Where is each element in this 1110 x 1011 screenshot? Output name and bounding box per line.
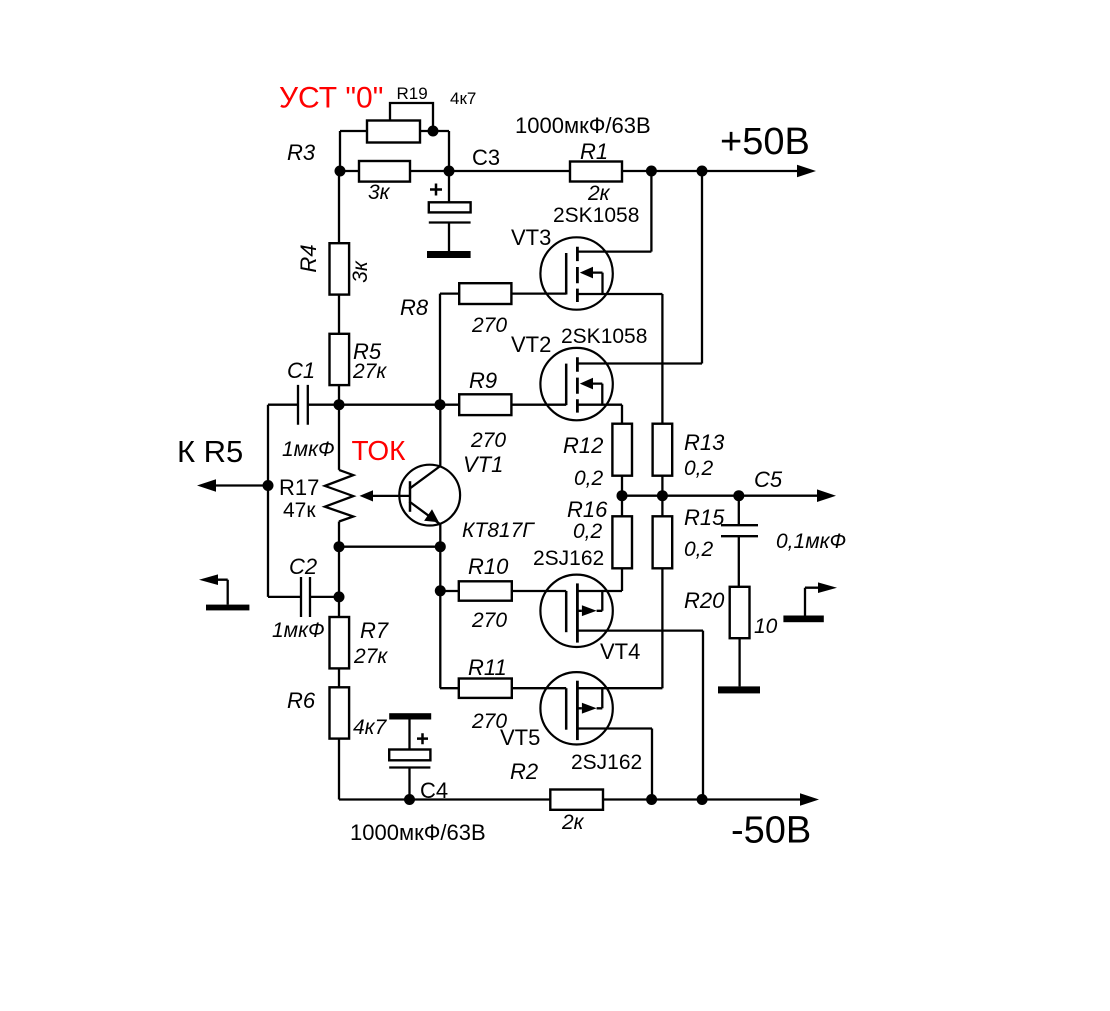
svg-text:R2: R2 [510, 759, 538, 784]
wire R6 to bottom rail [338, 739, 340, 800]
potentiometer R19 [367, 121, 420, 143]
wire R8 leads [440, 294, 566, 405]
node VT1 emitter [435, 541, 446, 552]
svg-text:C1: C1 [287, 358, 315, 383]
arrow -50V [800, 793, 819, 806]
node R17 bottom [334, 541, 345, 552]
transistor VT3 (2SK1058) [540, 237, 612, 309]
svg-text:VT5: VT5 [500, 725, 540, 750]
transistor VT1 (КТ817Г) [399, 465, 460, 526]
node C3 top [444, 166, 455, 177]
capacitor C4 plate [389, 750, 430, 761]
capacitor C2 [301, 577, 310, 617]
ground left [206, 605, 249, 611]
svg-text:УСТ "0": УСТ "0" [279, 82, 383, 115]
resistor R17 zigzag [325, 470, 353, 522]
arrow left ground [199, 574, 218, 585]
wire bottom rail -50V [339, 798, 803, 800]
node input [263, 480, 274, 491]
svg-text:-50В: -50В [731, 810, 811, 852]
transistor VT5 (2SJ162) [540, 672, 612, 744]
capacitor C3 plate [429, 202, 471, 212]
svg-text:27к: 27к [353, 645, 388, 668]
svg-text:1мкФ: 1мкФ [282, 438, 335, 461]
svg-text:R11: R11 [468, 655, 507, 680]
node dots [263, 126, 745, 806]
resistor R10 [459, 581, 512, 600]
svg-text:1мкФ: 1мкФ [272, 619, 325, 642]
arrow right ground [818, 582, 837, 593]
ground under R20 [718, 686, 760, 693]
svg-text:2SK1058: 2SK1058 [553, 204, 639, 227]
node VT2 drain rail [697, 166, 708, 177]
svg-text:2к: 2к [561, 811, 585, 834]
svg-text:R15: R15 [684, 505, 725, 530]
wire VT5 source to R15 [577, 568, 662, 688]
svg-text:R17: R17 [279, 475, 319, 500]
svg-text:VT2: VT2 [511, 332, 551, 357]
node C5 top [733, 490, 744, 501]
svg-text:R3: R3 [287, 140, 316, 165]
wire C3 branch [429, 171, 471, 252]
wire C2 node y=596.9 [268, 596, 339, 598]
wire C4 branch [389, 719, 430, 799]
wire right ground elbow [805, 588, 818, 616]
svg-text:10: 10 [754, 615, 778, 638]
node VT3 drain rail [646, 166, 657, 177]
plus sign C4 [417, 733, 428, 744]
resistor R12 [612, 424, 632, 476]
resistor R11 [459, 679, 512, 698]
wire R17/C2 to R7 [338, 547, 340, 617]
ground right [783, 616, 823, 623]
svg-text:C3: C3 [472, 145, 500, 170]
arrow output C5 [817, 489, 836, 502]
svg-text:R6: R6 [287, 688, 316, 713]
node VT4 drain rail [697, 794, 708, 805]
ground under C3 [427, 251, 471, 258]
svg-text:R10: R10 [468, 554, 509, 579]
node C1/R5 [334, 399, 345, 410]
svg-text:R8: R8 [400, 295, 429, 320]
svg-text:ТОК: ТОК [352, 435, 407, 466]
resistor R2 [550, 790, 603, 810]
wire R10 leads [440, 590, 566, 592]
svg-text:R19: R19 [397, 84, 428, 103]
svg-text:4к7: 4к7 [353, 716, 388, 739]
node C2/R7 [334, 591, 345, 602]
wiper arrow of R17 [360, 490, 374, 501]
svg-text:3к: 3к [368, 181, 391, 204]
wire VT1 emitter vertical [439, 524, 441, 688]
wire C1 node y=404.7 [268, 404, 459, 406]
resistor R15 [653, 516, 673, 568]
svg-text:VT4: VT4 [600, 639, 640, 664]
svg-text:3к: 3к [349, 260, 372, 283]
svg-text:C4: C4 [420, 778, 448, 803]
svg-text:+50В: +50В [720, 121, 810, 163]
svg-text:2SJ162: 2SJ162 [571, 751, 642, 774]
svg-text:4к7: 4к7 [450, 89, 476, 108]
wire R17 bottom [338, 522, 340, 547]
wire R12 R13 bottoms to output node [622, 476, 662, 517]
resistor R9 [459, 394, 511, 415]
wire +50V rail [340, 170, 801, 172]
wire R19 left vertical [340, 131, 367, 171]
node VT5 drain rail [646, 794, 657, 805]
resistor R4 [330, 243, 350, 294]
svg-text:VT1: VT1 [463, 452, 503, 477]
svg-text:270: 270 [470, 429, 506, 452]
node C4 bottom [404, 794, 415, 805]
resistor R6 [330, 687, 350, 738]
wire R19 wiper [390, 103, 433, 131]
svg-text:1000мкФ/63В: 1000мкФ/63В [515, 113, 651, 138]
node R3 left [335, 166, 346, 177]
resistor R5 [330, 334, 350, 385]
svg-text:0,1мкФ: 0,1мкФ [776, 530, 846, 553]
resistor R16 [612, 516, 632, 568]
svg-text:R16: R16 [567, 497, 608, 522]
plus sign C3 [430, 184, 442, 196]
wire C5 branch [721, 496, 758, 587]
wire R9 right lead [511, 404, 566, 406]
wire left ground elbow [218, 580, 228, 605]
wire VT4 drain to rail [577, 631, 703, 800]
svg-text:C5: C5 [754, 467, 783, 492]
svg-text:270: 270 [471, 609, 507, 632]
svg-text:R12: R12 [563, 433, 603, 458]
capacitor C1 [298, 385, 308, 425]
svg-text:R20: R20 [684, 588, 725, 613]
svg-text:C2: C2 [289, 554, 317, 579]
svg-text:47к: 47к [283, 499, 316, 522]
wire VT3 drain to rail [577, 171, 651, 252]
svg-text:1000мкФ/63В: 1000мкФ/63В [350, 820, 486, 845]
node R10 [435, 585, 446, 596]
svg-text:270: 270 [471, 314, 507, 337]
svg-text:R4: R4 [296, 244, 321, 272]
wire VT3 source to R13 [577, 294, 662, 424]
svg-text:VT3: VT3 [511, 225, 551, 250]
svg-text:2к: 2к [587, 182, 611, 205]
svg-text:R1: R1 [580, 139, 608, 164]
svg-text:0,2: 0,2 [574, 467, 604, 490]
svg-text:2SK1058: 2SK1058 [561, 325, 647, 348]
resistor R3 [359, 161, 410, 182]
wire left column x=339 [338, 171, 340, 405]
wire left input vertical [267, 405, 269, 597]
node R13 bottom [657, 490, 668, 501]
transistor VT4 (2SJ162) [540, 575, 612, 647]
resistor R7 [330, 617, 350, 668]
node R8/R9 [435, 399, 446, 410]
wire VT2 drain to rail [577, 171, 702, 364]
svg-text:0,2: 0,2 [684, 457, 714, 480]
svg-text:R13: R13 [684, 430, 725, 455]
wire output node y=495.7 [622, 495, 821, 497]
ground above C4 [389, 713, 431, 719]
svg-text:К R5: К R5 [177, 434, 243, 469]
svg-text:R7: R7 [360, 618, 389, 643]
wire emitter node y=546.7 [339, 546, 440, 548]
wire R17 top [338, 405, 340, 470]
wire R11 leads [440, 687, 566, 689]
wire VT5 drain to rail [577, 729, 652, 800]
wire R7-R6 [338, 668, 340, 687]
node R12 bottom [617, 490, 628, 501]
arrow input K R5 [197, 479, 216, 492]
resistor R1 [570, 162, 622, 182]
resistor R8 [459, 283, 511, 304]
wire R19 right lead [420, 131, 449, 171]
transistor VT2 (2SK1058) [540, 348, 612, 420]
svg-text:0,2: 0,2 [573, 520, 603, 543]
wire input arrow stub [216, 484, 268, 486]
wire VT1 collector vertical [439, 405, 441, 466]
resistor R20 [730, 587, 750, 638]
wire VT4 source to R16 [577, 568, 622, 591]
wire VT2 source to R12 [577, 405, 622, 424]
svg-text:0,2: 0,2 [684, 538, 714, 561]
node R19 wiper junction [428, 126, 439, 137]
svg-text:КТ817Г: КТ817Г [462, 519, 535, 542]
arrow +50V [797, 165, 816, 178]
svg-text:27к: 27к [352, 360, 387, 383]
wire R17 wiper to VT1 base [372, 495, 409, 497]
resistor R13 [653, 424, 673, 476]
wire R20 to ground [738, 638, 740, 686]
svg-text:R9: R9 [469, 368, 497, 393]
svg-text:2SJ162: 2SJ162 [533, 547, 604, 570]
